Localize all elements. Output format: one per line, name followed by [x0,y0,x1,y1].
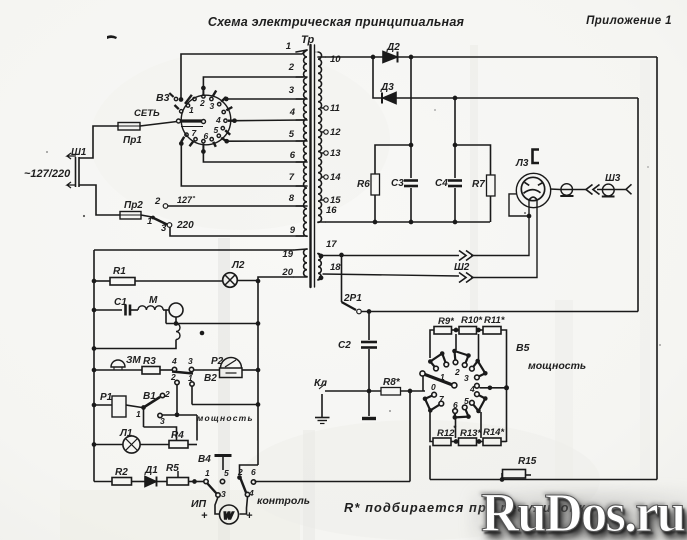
bell ZM legs [114,367,122,370]
svg-text:5: 5 [224,468,229,478]
contact circle 5a [475,392,480,397]
junction tap6 wire [201,149,206,154]
ink speck [315,51,317,53]
wire tap10 to D2 [325,56,383,58]
inner right vertical down to 2R1 line [637,98,639,312]
V3 wires to transformer [181,50,307,186]
svg-text:8: 8 [289,193,295,204]
contact 5a wire-side [217,134,220,137]
svg-text:6: 6 [453,400,458,410]
svg-text:Д2: Д2 [386,42,400,53]
contact 1 circle [190,382,194,386]
svg-text:6: 6 [290,150,296,161]
contact 3 circle [216,493,220,497]
svg-text:Приложение 1: Приложение 1 [586,15,672,27]
diode D1 triangle [145,477,156,487]
wire R10-R11 [477,329,484,331]
resistor R15 body [503,470,526,479]
svg-text:6: 6 [251,467,256,477]
contact 6 wire tick [202,144,204,150]
wire R3 to V2 [160,369,172,371]
svg-text:18: 18 [330,262,341,273]
contact 4 wire tick [228,119,233,121]
scan crease band [470,45,478,310]
wire R4 right [188,444,197,446]
wire 2R1 output [362,311,639,313]
wire R12-R13 [451,441,459,443]
contact 2 tick [202,89,204,94]
lamp L1 cross [126,439,138,451]
tap 18 stub [318,278,321,280]
Sh3 chevrons [586,185,600,195]
svg-text:Схема электрическая принципиал: Схема электрическая принципиальная [208,15,465,29]
junction C2/Kl node [367,389,372,394]
wire coil to motor [163,309,169,311]
tap 17 stub [318,254,321,257]
tap 3 stub [296,98,307,100]
contact 4 wire dots [488,386,493,391]
switch V4 actuator stem [222,457,224,470]
relay contact 2R1 blade [342,302,357,310]
svg-text:10: 10 [330,54,341,65]
svg-text:Л2: Л2 [231,260,245,271]
junction tap4 wire [232,118,237,123]
wire M node to bus [166,323,258,325]
contact 4 wire to right vertical [480,387,507,389]
wiper end circle right [202,120,206,124]
terminal Kl [325,390,381,392]
svg-text:5: 5 [214,125,219,135]
junction tube heater [527,214,532,219]
tap 11 stub [322,107,324,109]
svg-text:Л1: Л1 [119,428,133,439]
contact 5 circle [220,479,224,483]
contact circle 7a [432,392,437,397]
contact 4 [222,110,225,113]
wire V1-3 right [162,414,197,416]
svg-text:Д3: Д3 [380,82,394,93]
vertical R8node to contact6 wire [409,391,411,482]
V3 wire dots [179,86,237,154]
diode D3 triangle [383,93,396,104]
tap 19 stub [294,249,307,250]
contact 3 circle [189,367,193,371]
lamp L2 circle [223,273,238,288]
capacitor C1 plate 2 [129,305,132,316]
spare contact tick [169,93,173,97]
wire to R4 right [196,415,198,441]
paper mottle [90,50,390,230]
wire tap2 [203,77,303,88]
svg-text:2: 2 [154,196,161,207]
secondary open-circle taps 11-15 [324,106,328,202]
svg-text:3: 3 [221,489,226,499]
fuse Pr1 [118,123,140,131]
tap 7 stub [296,185,307,187]
svg-text:3: 3 [210,101,215,111]
meter P2 scale mark [226,372,237,374]
wire tap6 [203,152,304,163]
lone contact left of wiper [174,97,177,100]
primary tap stubs [296,50,307,52]
wiper center circle [452,383,457,388]
svg-text:4: 4 [248,488,254,498]
tube center pin wire via Sh2 to tap 18 [471,199,537,278]
verticals from bottom junctions to contacts 5,6 [455,418,457,438]
node contact 1 of voltage switch [151,216,155,220]
tap 14 stub [322,176,324,178]
open-circle taps 11-15, 17-18 [324,106,328,110]
branch down to D3 [373,57,381,98]
fuse Pr1 through line [118,125,140,127]
capacitor C2 plate 2 [361,346,377,349]
wiper bar [180,119,202,122]
diode D2 cathode bar [397,52,399,63]
svg-text:Р2: Р2 [211,356,224,367]
svg-text:контроль: контроль [257,495,310,507]
scan smudge [60,490,300,540]
contact 5 tick [225,130,230,135]
svg-text:11: 11 [330,103,340,114]
transformer secondary lower winding (taps 17-18) [318,254,321,280]
wire Pr1 to V3 wiper [140,122,177,127]
connector Sh1 arrow top [67,153,76,159]
capacitor C3 lower plate [404,185,418,188]
contact 3 tick [213,91,216,97]
switch V5 wiper bar [425,375,452,385]
V2 lower contacts [175,380,179,384]
top edge to tap 19 [94,249,294,251]
resistor R8 [381,388,401,396]
contact 6 circle [251,480,255,484]
svg-text:13: 13 [330,148,341,159]
svg-text:R13*: R13* [460,428,482,439]
node B vertical x=455 (C4) [454,98,456,178]
svg-text:17: 17 [326,239,337,250]
wire Sh1 top to Pr1 [79,126,118,158]
tap 6 stub [296,161,307,163]
wire tap5 [227,140,304,142]
wire coil branch down [165,310,167,324]
junction tap5 wire [224,139,229,144]
contact 4 circle [172,367,176,371]
wire D1 to R5 [157,481,167,483]
contact 5 [221,127,224,130]
resistor R10 [459,327,477,335]
transformer primary winding (taps 1-9) [304,50,307,236]
junction tap1 wire [179,97,184,102]
trimmer R5 arrow [177,471,179,478]
Sh2 arrows wire17 [459,251,473,261]
svg-text:мощность: мощность [528,360,586,372]
transformer primary lower winding (taps 19-20) [304,249,307,277]
svg-text:R3: R3 [143,356,156,367]
svg-text:0: 0 [431,382,436,392]
resistor R1 body [110,278,135,286]
contact 6 [210,138,213,141]
contact 4 circle [245,492,249,496]
svg-text:М: М [149,295,158,306]
junction R8 output [408,389,413,394]
contact 3 wire tick [221,97,226,102]
ink speck [647,166,649,168]
Sh3 end fork [626,184,632,194]
contact circle 6a [462,405,467,410]
svg-text:СЕТЬ: СЕТЬ [134,108,160,119]
contact 1 staple [430,354,446,369]
bottom rail tap16 [325,221,490,223]
lamp L2 cross [225,275,235,285]
tap 2 stub [296,76,307,78]
svg-text:Пр2: Пр2 [124,200,143,211]
svg-text:ЗМ: ЗМ [126,355,141,366]
wiper underline [181,126,203,128]
contact circle 3a [470,366,475,371]
svg-text:С3: С3 [391,178,404,189]
junction tap2 wire [201,86,206,91]
svg-text:3: 3 [464,373,469,383]
tube L3 heater arc [529,197,538,200]
contact 7 staple [425,395,441,411]
junction R12/R13 [454,439,459,444]
junction R9/R10 [454,328,459,333]
meter P2 [221,358,242,369]
resistor R9 [434,327,452,335]
wire node A below C3 [410,188,412,222]
junction 2R1/C2 [367,309,372,314]
svg-text:Ш2: Ш2 [454,262,470,273]
right bus jog to V4 contact2 [240,465,259,475]
svg-text:1: 1 [189,105,194,115]
ink speck [46,151,48,153]
wire motor bottom [175,317,177,324]
branch to R6 [375,145,411,174]
tap 9 stub [296,235,307,237]
connector pin base [560,195,573,197]
svg-text:7: 7 [289,172,295,183]
svg-text:4: 4 [171,356,177,366]
resistor R3 body [142,367,160,375]
svg-text:4: 4 [215,115,221,125]
svg-text:2: 2 [199,98,205,108]
contact 1 staple dots [428,359,433,364]
junction D2 line [371,55,376,60]
wire R1 to L2 [135,280,223,282]
junction contact 2 [237,475,242,480]
svg-text:5: 5 [464,396,469,406]
svg-text:Пр1: Пр1 [123,135,142,146]
tap20 wire to right bus [258,277,294,465]
wire junction to contact 5 [480,412,482,438]
contact 6 staple [455,407,469,417]
motor M circle [169,303,183,317]
Sh2 arrows wire18 [459,273,473,283]
junction R15 left [500,477,505,482]
scan streak band [640,60,650,480]
svg-text:Р1: Р1 [100,392,113,403]
resistor R4 body [169,441,188,449]
junction R5 output [192,479,197,484]
ground bar 1 [315,417,330,419]
relay P1 body [112,396,126,417]
contact circle 7b [439,401,444,406]
tube right pin to Sh3 [550,188,586,191]
contact circle 6b [453,409,458,414]
wire tap7 [181,144,304,187]
wire M return to bus [94,340,176,349]
contact 2 staple [455,351,469,365]
svg-text:С2: С2 [338,340,351,351]
svg-text:3: 3 [188,356,193,366]
svg-text:14: 14 [330,172,341,183]
wire Kl to ground [321,394,323,417]
watermark text [481,481,687,540]
connector Sh3 pin base [602,196,615,198]
svg-text:1: 1 [188,373,193,383]
tap 5 stub [296,140,307,142]
capacitor C1 plate 1 [124,305,127,316]
wire R13-R14 [477,441,484,443]
resistor R12 [433,438,451,446]
row R2 / D1 / R5 [94,481,112,483]
contact 6 tick [213,142,216,147]
wire L1 to R4 [140,444,169,446]
stray ink dash [107,35,117,39]
svg-text:R15: R15 [518,456,537,467]
inductor M winding [138,306,163,310]
tap 15 stub [322,199,324,201]
row L1 / R4 [94,444,123,446]
cap C4 [448,179,462,182]
svg-text:R5: R5 [166,463,179,474]
wire contact 2 down [176,385,178,415]
wire tap4 [235,119,305,122]
svg-text:220: 220 [176,220,194,231]
junction tap3 wire [224,97,229,102]
svg-text:12: 12 [330,127,341,138]
contact circle 3b [475,375,480,380]
resistor R6 [371,174,380,195]
chassis bar below C2 [362,417,376,420]
wire R8 to wiper node [401,390,426,392]
V3 numerals [189,98,221,141]
tap 4 stub [296,119,307,121]
resistor R15 on rail [501,473,503,480]
contact 8 left upper [180,110,183,113]
contact 3a wire-side [218,103,221,106]
fuse Pr2 through line [120,214,141,216]
svg-text:С4: С4 [435,178,448,189]
V5 resistor row top [430,330,434,358]
row R1 / L2 lamp [94,280,110,282]
contact 3 circle [158,413,162,417]
tube L3 [516,173,550,207]
svg-text:Ш3: Ш3 [605,173,621,184]
junction tap7 wire [179,141,184,146]
svg-text:В3: В3 [156,92,170,104]
svg-text:3: 3 [160,416,165,426]
ink speck [434,109,436,111]
scan crease band [218,238,230,540]
relay contact 2R1 [341,255,343,302]
svg-text:2Р1: 2Р1 [343,293,362,304]
wire 18 to transformer [323,274,460,276]
svg-text:мощность: мощность [197,413,254,423]
switch V3 body circle [181,95,231,145]
svg-text:4: 4 [289,107,296,118]
secondary tap stubs [318,56,325,58]
transformer tap labels [281,41,341,278]
wire tap1 [181,50,307,100]
resistor R14 [483,438,501,446]
contact 3 staple [472,361,485,377]
cap C2 [368,312,370,341]
contact circle 5b [470,400,475,405]
wire contact 4 to meter [240,497,248,514]
svg-text:В1: В1 [143,391,156,402]
contact 1 [186,104,189,107]
cap C3 [404,179,418,182]
junction bottom rail [373,220,378,225]
right outer vertical [656,57,658,480]
wire R15 right [526,474,532,476]
wire P2 to bus [242,369,258,371]
tube L3 electrode left [525,182,530,185]
contact 2 (127V) [163,204,168,209]
diode D1 cathode bar [156,477,158,487]
svg-text:+: + [246,510,253,522]
junction dots left bus [92,279,97,284]
contact 4 tick [226,107,232,110]
svg-text:R10*: R10* [461,315,483,326]
svg-text:1: 1 [136,409,141,419]
connector Sh1 [75,157,77,187]
svg-text:Д1: Д1 [144,465,158,476]
wire tap3 [226,98,304,100]
diode D2 [383,52,397,63]
contact 3 [210,97,213,100]
wire C1 to M [130,309,138,311]
resistor R13 [459,438,477,446]
relay P1 [94,404,112,406]
svg-text:R8*: R8* [383,377,401,388]
junction V2-2 wire [175,412,180,417]
tube left pin wire via Sh2 to tap 17 [509,194,529,216]
wire contact 1 down [191,387,193,405]
tap 13 stub [322,152,324,154]
wire D3 to inner right vertical [396,97,638,99]
switch V2 blade [172,372,193,374]
svg-text:2: 2 [170,372,176,382]
svg-text:2: 2 [454,367,460,377]
wire R9-R10 [452,329,460,331]
junction R13/R14 [477,439,482,444]
switch V4 actuator bar [215,454,232,457]
contact 2 circle [160,393,164,397]
wire R2 to D1 [132,481,146,483]
meter IP [215,497,220,514]
junction V1 pivot [141,405,146,410]
contact 7 [194,138,197,141]
contact 5 wire tick [221,138,226,141]
svg-text:В2: В2 [204,373,217,384]
left bus [93,250,95,482]
svg-text:1: 1 [205,468,210,478]
wire 127 contact to tap 8 [168,205,304,207]
svg-text:R14*: R14* [483,427,505,438]
switch 127/220 blade [141,215,152,217]
wiper end circle left [177,119,181,123]
